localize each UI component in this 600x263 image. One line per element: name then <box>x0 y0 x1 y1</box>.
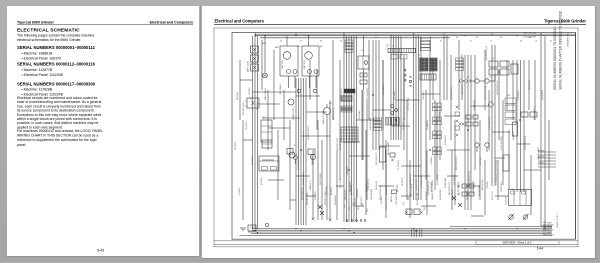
svg-text:[ENGINE FWD]: [ENGINE FWD] <box>303 172 305 185</box>
svg-text:[43]: [43] <box>424 207 426 210</box>
pressure switch SW1 <box>509 214 515 220</box>
svg-text:[3B PINK]: [3B PINK] <box>480 157 482 165</box>
svg-text:[1B PINK]: [1B PINK] <box>381 196 383 204</box>
svg-text:[TATTLETALE]: [TATTLETALE] <box>410 184 413 196</box>
resistor R1 <box>511 64 518 74</box>
svg-text:[1B RED]: [1B RED] <box>249 87 251 95</box>
svg-text:[PK]: [PK] <box>367 208 369 212</box>
svg-text:[MURPHY SW]: [MURPHY SW] <box>417 192 419 205</box>
svg-text:K1: K1 <box>361 50 363 52</box>
svg-text:GRINDER 6900: GRINDER 6900 <box>568 32 570 47</box>
svg-text:[TEMP SENDER]: [TEMP SENDER] <box>525 136 527 150</box>
label connector J1 <box>387 43 389 47</box>
diode block D1 <box>489 61 509 75</box>
label serial numbers column 1 <box>553 27 557 90</box>
connector grid X1b <box>430 58 438 71</box>
wire bundle ecu connector <box>391 36 401 140</box>
svg-text:[8B BROWN]: [8B BROWN] <box>440 189 442 200</box>
svg-text:[LOGIC PNL]: [LOGIC PNL] <box>416 179 418 190</box>
svg-text:15: 15 <box>405 37 407 39</box>
right schematic page <box>200 6 202 256</box>
pressure switch SW2 <box>523 214 529 220</box>
comb connector CB-A <box>341 96 352 102</box>
svg-text:[GREASE PUMP]: [GREASE PUMP] <box>472 180 475 195</box>
svg-text:[BATTERY]: [BATTERY] <box>303 59 306 69</box>
svg-text:[GY]: [GY] <box>349 206 351 210</box>
svg-text:[S GREY]: [S GREY] <box>239 187 241 195</box>
svg-text:[2B GREEN (Y)]: [2B GREEN (Y)] <box>302 187 304 200</box>
svg-text:[GN BROWN (Y)]: [GN BROWN (Y)] <box>451 86 453 100</box>
svg-text:[ENGINE STOP]: [ENGINE STOP] <box>325 191 327 205</box>
svg-text:[RD BULB AMP]: [RD BULB AMP] <box>387 141 390 155</box>
connector ladder X5 <box>345 40 353 52</box>
svg-text:[ENGINE]: [ENGINE] <box>237 92 239 100</box>
splice chain B <box>455 106 460 137</box>
wire horn circuit <box>492 45 495 186</box>
svg-text:86: 86 <box>340 41 342 43</box>
label BATT BROWN <box>524 32 537 35</box>
svg-text:[OB GREEN]: [OB GREEN] <box>350 181 352 192</box>
svg-text:[WH SENDER]: [WH SENDER] <box>367 88 369 100</box>
svg-text:[11B GREEN]: [11B GREEN] <box>371 189 373 200</box>
wire stray verticals <box>240 40 529 220</box>
svg-text:TN RELAY: TN RELAY <box>505 196 508 205</box>
wire bundle lamp circuit <box>465 55 471 210</box>
svg-text:19: 19 <box>535 41 537 43</box>
svg-text:[18 GREY]: [18 GREY] <box>252 156 254 165</box>
svg-text:SERIAL NUMBERS CHAPTER 0000011: SERIAL NUMBERS CHAPTER 00000112 TO 00000… <box>559 11 563 90</box>
svg-text:[2B BROWN]: [2B BROWN] <box>383 84 385 95</box>
splice marks scattered <box>300 94 521 171</box>
svg-text:[CHASSIS PWR]: [CHASSIS PWR] <box>307 126 310 140</box>
node bus junction 2 <box>295 33 541 34</box>
wire bundle logic panel <box>414 36 422 200</box>
schematic frame <box>232 33 576 240</box>
svg-text:[44 GREEN]: [44 GREEN] <box>431 182 433 192</box>
svg-text:[GN BROWN (Y)]: [GN BROWN (Y)] <box>497 81 499 95</box>
connector stack J2 <box>421 38 431 51</box>
svg-text:[START AID]: [START AID] <box>473 99 476 110</box>
sensor box S3 <box>392 190 397 194</box>
comb connector CB-B <box>341 106 352 112</box>
svg-text:BATT BROWN: BATT BROWN <box>524 32 537 35</box>
svg-text:[18 GREY]: [18 GREY] <box>315 191 317 200</box>
svg-text:[RD BULB]: [RD BULB] <box>376 181 378 190</box>
wire sensor return bus <box>450 226 552 228</box>
svg-text:[GND CABLE]: [GND CABLE] <box>279 83 282 95</box>
plug P8 <box>297 89 317 93</box>
svg-text:[2 BLACK]: [2 BLACK] <box>430 156 433 165</box>
svg-text:[5B GREEN]: [5B GREEN] <box>298 159 300 170</box>
connector ladder X6 <box>374 118 382 130</box>
plug P6 <box>485 143 489 152</box>
wire ground bus 5 <box>240 235 553 237</box>
valve rect V2 <box>503 155 509 171</box>
wire relay feed <box>363 36 365 90</box>
svg-text:[OIL PSI]: [OIL PSI] <box>397 184 399 192</box>
diamond connector <box>488 102 494 108</box>
svg-text:X1: X1 <box>418 55 420 57</box>
svg-text:[J1]: [J1] <box>387 43 389 47</box>
frame inner right line <box>575 33 577 240</box>
comb connector CB-C <box>386 118 400 126</box>
svg-text:[4B BLACK]: [4B BLACK] <box>334 195 337 205</box>
connector ladder chain A <box>433 103 442 155</box>
svg-text:[NO WIRE]: [NO WIRE] <box>394 91 396 100</box>
svg-text:[30B WHITE]: [30B WHITE] <box>345 189 347 200</box>
svg-text:5-44: 5-44 <box>537 246 544 250</box>
svg-text:58: 58 <box>520 41 522 43</box>
svg-text:[25B BLUE]: [25B BLUE] <box>513 130 515 140</box>
svg-text:[12B WHT]: [12B WHT] <box>423 91 425 100</box>
svg-text:WP: WP <box>329 103 333 105</box>
svg-text:[ENGINE ECU]: [ENGINE ECU] <box>340 137 342 150</box>
svg-text:[WK BROWN (Y)]: [WK BROWN (Y)] <box>428 180 430 195</box>
svg-text:[START AID]: [START AID] <box>444 177 447 188</box>
ground G3 <box>248 225 256 231</box>
svg-text:[RED BULB]: [RED BULB] <box>529 80 531 90</box>
svg-text:S1: S1 <box>294 145 296 147</box>
svg-text:[14B WHITE]: [14B WHITE] <box>462 84 464 95</box>
svg-text:ALT: ALT <box>320 45 324 48</box>
node bus junction 1 <box>255 33 256 36</box>
svg-text:[OB GREEN (Y)]: [OB GREEN (Y)] <box>376 151 378 165</box>
svg-text:SW: SW <box>507 95 510 97</box>
svg-text:[2B RED]: [2B RED] <box>257 102 259 110</box>
svg-text:[FUEL LVL]: [FUEL LVL] <box>492 190 494 200</box>
valve body V1 <box>380 147 386 162</box>
plug P1 <box>470 79 479 83</box>
wire bundle sender lines <box>373 40 379 150</box>
svg-text:AMP: AMP <box>275 46 280 49</box>
svg-text:D1: D1 <box>492 58 494 60</box>
svg-text:[ENGINE GND]: [ENGINE GND] <box>243 102 245 115</box>
svg-text:[GB GREEN]: [GB GREEN] <box>396 194 398 205</box>
svg-text:[OB BLK]: [OB BLK] <box>538 162 545 164</box>
plug P5 <box>475 143 479 152</box>
svg-text:[30 AMBER]: [30 AMBER] <box>426 120 429 130</box>
svg-text:[ENGINE RPM]: [ENGINE RPM] <box>307 192 309 205</box>
shutdown relay pair <box>405 209 422 215</box>
svg-text:[M GREY]: [M GREY] <box>331 186 333 195</box>
wire right-mid runs <box>538 150 556 167</box>
svg-text:[BATT 125A]: [BATT 125A] <box>247 61 250 72</box>
svg-text:X3: X3 <box>345 129 347 131</box>
svg-text:P2: P2 <box>489 77 491 79</box>
terminal block TB1 <box>262 140 272 148</box>
svg-text:15: 15 <box>470 41 472 43</box>
plug P2 <box>479 79 489 83</box>
svg-text:[OB BLACK]: [OB BLACK] <box>541 90 544 100</box>
svg-text:[GND 2]: [GND 2] <box>355 198 357 205</box>
connector ladder X7 <box>456 58 464 70</box>
svg-text:[5 BROWN]: [5 BROWN] <box>518 90 520 100</box>
svg-text:[41]: [41] <box>403 202 405 205</box>
svg-text:Tigercat 6900 Grinder: Tigercat 6900 Grinder <box>544 19 586 24</box>
svg-text:30: 30 <box>280 41 282 43</box>
label breaker <box>243 102 245 115</box>
twisted pair lower <box>318 205 324 215</box>
plug P4b <box>294 156 298 165</box>
valve rect V3 <box>513 122 518 136</box>
svg-text:85: 85 <box>476 37 478 39</box>
wire bundle cab harness <box>296 78 306 225</box>
indicator block H1 <box>521 112 537 117</box>
splice column <box>409 76 411 87</box>
plug P7 <box>265 223 268 226</box>
svg-text:[M GREY]: [M GREY] <box>235 141 237 150</box>
label terminal stack <box>547 221 555 236</box>
svg-text:[FD FUEL PMP]: [FD FUEL PMP] <box>408 97 410 110</box>
terminal number row <box>280 41 552 43</box>
sender S1 <box>287 149 295 159</box>
svg-text:[1B GREY]: [1B GREY] <box>246 121 248 130</box>
wire bundle engine harness <box>344 36 357 222</box>
svg-text:[11 GREEN]: [11 GREEN] <box>398 160 400 170</box>
svg-text:50: 50 <box>500 37 502 39</box>
plug pair inline <box>460 79 468 83</box>
hatch ticks at bus <box>412 229 422 237</box>
svg-text:[OB]: [OB] <box>344 204 346 208</box>
svg-text:[GROUND BLK]: [GROUND BLK] <box>370 117 372 130</box>
wire bundle right riser <box>541 36 545 226</box>
svg-text:[B GREY]: [B GREY] <box>261 177 263 185</box>
label battery 1 <box>281 59 284 69</box>
svg-text:[BN]: [BN] <box>353 202 355 206</box>
svg-text:[BW BROWN (Y)]: [BW BROWN (Y)] <box>486 45 488 60</box>
ecu dark row <box>344 89 355 93</box>
wire bundle battery feed <box>253 36 258 229</box>
svg-text:[42]: [42] <box>408 197 410 200</box>
svg-text:[WK WHT]: [WK WHT] <box>361 196 363 205</box>
svg-text:[AIR FILT]: [AIR FILT] <box>390 193 393 202</box>
module A3 <box>259 156 279 171</box>
relay box TN <box>509 190 532 206</box>
left text page <box>7 6 199 256</box>
terminal lugs <box>346 220 366 222</box>
svg-text:[BATT SUPLY]: [BATT SUPLY] <box>340 88 343 100</box>
svg-text:CB: CB <box>249 98 252 100</box>
fuse F5 <box>360 73 367 84</box>
label lamp cluster <box>486 45 488 60</box>
svg-text:[5B GRN]: [5B GRN] <box>538 156 545 158</box>
relay K1 <box>358 56 369 69</box>
connector sub X0a <box>391 55 407 60</box>
svg-text:[AM]: [AM] <box>262 42 266 45</box>
label ecu <box>340 137 342 150</box>
wire id labels lower <box>302 173 503 205</box>
svg-text:[HORN]: [HORN] <box>487 181 489 188</box>
label grinder corner <box>568 32 570 47</box>
svg-text:[HORN BUTTON]: [HORN BUTTON] <box>485 85 487 100</box>
svg-text:6900-590A - Sheet 1 of 5: 6900-590A - Sheet 1 of 5 <box>503 241 532 245</box>
contact pair K3 <box>466 115 478 126</box>
plug pair P9 <box>391 105 398 115</box>
battery box B1 <box>280 46 298 76</box>
wire ground bus 1 <box>252 228 552 230</box>
svg-text:[TN RELAY]: [TN RELAY] <box>358 110 361 120</box>
wire ignition top bus <box>255 35 576 37</box>
svg-text:[V PRESSURE TOP PURGED]: [V PRESSURE TOP PURGED] <box>496 160 498 185</box>
svg-text:A1: A1 <box>263 116 265 119</box>
svg-text:[TEMP SIG]: [TEMP SIG] <box>501 182 503 192</box>
svg-text:[WATER PUMP]: [WATER PUMP] <box>322 111 325 124</box>
scan fold line <box>214 28 578 247</box>
label battery 2 <box>303 59 306 69</box>
svg-text:[2B BRN]: [2B BRN] <box>538 150 545 152</box>
label FUEL BROWN <box>523 36 536 38</box>
twisted pair crossover <box>452 196 462 207</box>
switch stack S2 <box>505 98 516 125</box>
svg-text:BAT: BAT <box>297 45 301 48</box>
fuse F1 <box>251 46 259 53</box>
svg-text:30: 30 <box>550 41 552 43</box>
svg-text:SHEET 1 OF 5: SHEET 1 OF 5 <box>557 213 559 228</box>
svg-text:[V PRESSURE]: [V PRESSURE] <box>421 175 423 188</box>
label sheet note <box>557 213 559 228</box>
svg-text:[8 BROWN]: [8 BROWN] <box>445 135 447 145</box>
svg-text:RPM SIG: RPM SIG <box>547 234 555 236</box>
svg-text:85: 85 <box>320 41 322 43</box>
right terminal stack <box>543 223 546 235</box>
wire bundle gauge feed <box>517 60 524 192</box>
svg-text:30a: 30a <box>528 37 531 39</box>
sensor pair S4 <box>390 153 395 161</box>
svg-text:[30B WHITE 1]: [30B WHITE 1] <box>333 108 335 120</box>
connector bar X0 <box>388 48 416 52</box>
svg-text:SERIAL NUMBERS 00000001 TO 000: SERIAL NUMBERS 00000001 TO 00000111 <box>553 27 557 90</box>
svg-text:30: 30 <box>375 37 377 39</box>
water pump M2 <box>324 104 331 118</box>
wire ground bus 4 <box>251 233 552 235</box>
svg-text:31: 31 <box>440 41 442 43</box>
svg-text:[BW GREEN (Y)]: [BW GREEN (Y)] <box>456 156 458 170</box>
svg-text:[ECU GND]: [ECU GND] <box>340 178 342 188</box>
title band <box>214 241 578 245</box>
junction box JB1 <box>308 149 315 155</box>
svg-text:Electrical and Computers: Electrical and Computers <box>215 19 265 24</box>
svg-text:[2 BROWN]: [2 BROWN] <box>357 188 359 198</box>
wire accessory top bus <box>260 37 450 39</box>
svg-text:P1: P1 <box>467 77 469 79</box>
wire riser elbow right <box>541 226 552 229</box>
label fuse panel <box>247 61 250 72</box>
wire id labels <box>235 80 544 212</box>
svg-text:50: 50 <box>490 41 492 43</box>
svg-text:[AIR FILTER]: [AIR FILTER] <box>481 179 484 190</box>
svg-text:[SHUTDOWN]: [SHUTDOWN] <box>320 173 322 185</box>
wire battery1 drop <box>287 36 295 88</box>
svg-text:86: 86 <box>456 37 458 39</box>
svg-text:[RAISED 2]: [RAISED 2] <box>309 180 312 190</box>
label serial numbers column 2 <box>559 11 563 90</box>
svg-text:[RD BROWN (Y)]: [RD BROWN (Y)] <box>469 171 471 185</box>
svg-text:[BATTERY]: [BATTERY] <box>281 59 284 69</box>
svg-text:J1: J1 <box>392 46 394 48</box>
svg-text:[RESISTOR]: [RESISTOR] <box>437 174 439 185</box>
wire pressure switch line <box>444 36 447 100</box>
wire ground bus 2 <box>252 229 552 231</box>
component ref labels <box>249 37 531 191</box>
bus junction dots <box>252 34 518 234</box>
svg-text:[A RAISED 2]: [A RAISED 2] <box>409 174 412 185</box>
connector grid X1 <box>420 58 429 71</box>
lamp H2 hourmeter <box>263 35 268 78</box>
svg-text:[PNK WHT 1]: [PNK WHT 1] <box>368 179 370 190</box>
svg-text:[HOUR METER]: [HOUR METER] <box>489 116 491 130</box>
circuit breaker CB1 <box>245 98 259 108</box>
svg-text:[FUEL SENDER]: [FUEL SENDER] <box>501 136 503 150</box>
svg-text:87: 87 <box>300 41 302 43</box>
svg-text:[MURPHY]: [MURPHY] <box>402 177 404 186</box>
svg-text:[ENGINE PNK]: [ENGINE PNK] <box>337 137 339 150</box>
module A1 <box>261 120 272 142</box>
label water pump <box>322 111 325 124</box>
ground G2 <box>240 228 246 231</box>
wire +BATT top bus <box>255 33 576 35</box>
splice X4 <box>312 218 332 222</box>
plug P4 <box>311 155 316 166</box>
fuse F3 <box>251 64 259 71</box>
wire plug link <box>489 75 495 81</box>
contact pairs lower <box>457 184 474 196</box>
connector strip X2 <box>420 74 436 80</box>
svg-text:[GN GREEN]: [GN GREEN] <box>452 189 454 200</box>
wire stray horizontals <box>240 80 541 216</box>
header rule <box>214 24 586 26</box>
svg-text:[BATT CABLE]: [BATT CABLE] <box>264 88 267 100</box>
wire battery2 drop <box>308 35 316 88</box>
fuse F2 <box>251 55 259 62</box>
svg-text:[AB GREEN (Y)]: [AB GREEN (Y)] <box>448 181 451 195</box>
label TN relay <box>505 196 508 205</box>
ecu connector block X3 <box>341 127 358 142</box>
fuse F4 <box>459 123 465 126</box>
svg-text:[GREASE]: [GREASE] <box>385 186 388 195</box>
wire ground bus 3 <box>248 231 552 233</box>
svg-text:87: 87 <box>430 37 432 39</box>
wire stray verticals B <box>363 55 549 215</box>
plug dots column <box>404 69 406 81</box>
battery box B2 <box>302 46 319 76</box>
connector P3 <box>288 99 294 105</box>
svg-text:[2B PINK (Y)]: [2B PINK (Y)] <box>467 189 469 200</box>
